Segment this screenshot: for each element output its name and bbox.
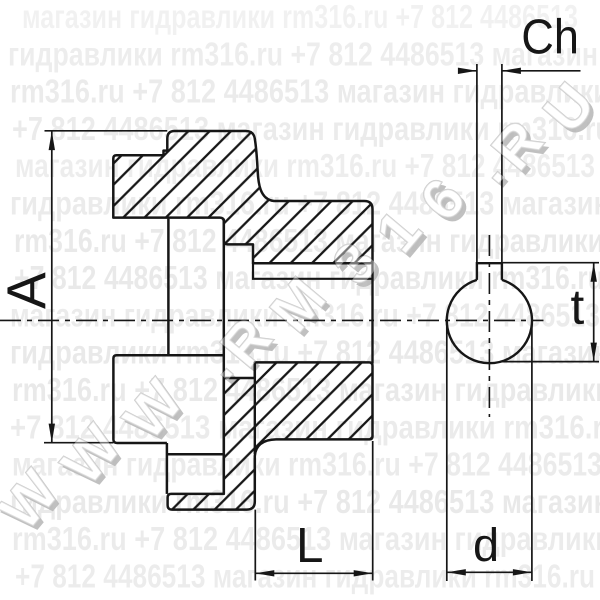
label d bbox=[475, 527, 496, 561]
label Ch bbox=[524, 19, 553, 54]
part body lower section (hatched) bbox=[168, 362, 373, 509]
diagonal watermark WWW.RM316.RU (embossed) bbox=[0, 71, 600, 546]
svg-text:+7 812 4486513 магазин гидравл: +7 812 4486513 магазин гидравлики rm316.… bbox=[15, 558, 595, 595]
slot wall internal edge (lower) bbox=[254, 362, 256, 454]
label A bbox=[7, 272, 45, 308]
dimension d line bbox=[447, 571, 532, 573]
flange step edge (lower left vertical) bbox=[166, 443, 169, 494]
ball circle bbox=[447, 280, 532, 363]
label t bbox=[571, 292, 584, 324]
svg-text:rm316.ru +7 812 4486513 магази: rm316.ru +7 812 4486513 магазин гидравли… bbox=[12, 520, 600, 557]
part body upper section (hatched) bbox=[113, 131, 372, 263]
Ch witness lines bbox=[477, 64, 502, 263]
hub right edge bbox=[223, 219, 226, 494]
dimension Ch line bbox=[460, 70, 581, 72]
svg-text:магазин гидравлики rm316.ru +7: магазин гидравлики rm316.ru +7 812 44865… bbox=[22, 0, 578, 35]
dimension d witness lines bbox=[447, 321, 532, 581]
label L bbox=[300, 528, 322, 562]
dimension L witness lines bbox=[255, 441, 372, 581]
horizontal centerline bbox=[0, 319, 544, 321]
sleeve wall lines (upper inner) bbox=[253, 263, 373, 279]
ball vertical centerline bbox=[488, 235, 490, 417]
dimension A witness bottom bbox=[44, 442, 113, 444]
ball tang bbox=[477, 263, 502, 280]
hub left edge bbox=[167, 219, 170, 355]
svg-text:rm316.ru +7 812 4486513 магази: rm316.ru +7 812 4486513 магазин гидравли… bbox=[10, 73, 600, 110]
flange front view block (lower left, white) bbox=[113, 355, 223, 454]
socket face edge (right vertical, continuous) bbox=[371, 262, 373, 364]
diagonal watermark highlight pass (over drawing) bbox=[0, 71, 600, 542]
dimension A line bbox=[51, 131, 53, 442]
dimension t witness lines bbox=[500, 263, 599, 362]
dimension t line bbox=[593, 263, 595, 362]
dimension A witness top bbox=[45, 130, 168, 132]
dimension L line bbox=[255, 572, 372, 574]
svg-text:гидравлики rm316.ru +7 812 448: гидравлики rm316.ru +7 812 4486513 магаз… bbox=[8, 35, 598, 72]
